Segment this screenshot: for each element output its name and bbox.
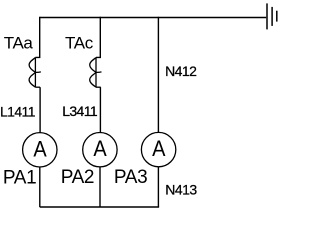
wire bottom bus N413 — [40, 206, 159, 208]
svg-text:PA1: PA1 — [3, 167, 36, 188]
svg-text:TAc: TAc — [65, 33, 94, 52]
svg-text:PA3: PA3 — [114, 167, 147, 188]
svg-text:A: A — [33, 137, 46, 161]
svg-text:A: A — [93, 137, 106, 161]
ammeter PA3 — [141, 132, 175, 166]
ammeter PA1 — [23, 133, 57, 167]
ammeter PA2 — [83, 133, 117, 167]
wire PA2 to bottom bus — [99, 167, 101, 207]
CT TAc winding — [90, 57, 102, 87]
svg-text:PA2: PA2 — [61, 167, 94, 188]
svg-text:L3411: L3411 — [62, 103, 98, 119]
wire TAa primary drop — [35, 17, 39, 58]
svg-text:L1411: L1411 — [0, 103, 36, 119]
wire L3411 (TAc secondary to PA2) — [99, 87, 101, 133]
svg-text:A: A — [152, 137, 165, 161]
ground — [267, 3, 277, 29]
wire L1411 (TAa secondary to PA1) — [39, 87, 41, 133]
wire top bus N412 — [40, 17, 267, 19]
CT TAa winding — [29, 57, 41, 87]
svg-text:N413: N413 — [165, 181, 197, 197]
wire N412 drop to PA3 — [157, 17, 159, 133]
svg-text:TAa: TAa — [4, 33, 34, 52]
wire PA1 to bottom bus — [39, 167, 41, 207]
wire TAc primary drop — [96, 17, 100, 58]
wire PA3 to bottom bus — [157, 167, 159, 207]
svg-text:N412: N412 — [165, 63, 197, 79]
